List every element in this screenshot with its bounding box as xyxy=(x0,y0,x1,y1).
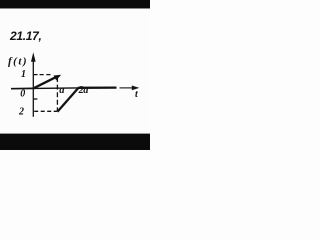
svg-text:1: 1 xyxy=(21,69,26,80)
ramp arrowhead xyxy=(54,75,62,81)
top band soft edge xyxy=(0,8,150,9)
dashed vertical at t=a xyxy=(56,77,58,112)
top black scan band xyxy=(0,0,150,8)
bottom band soft edge xyxy=(0,133,150,134)
t-axis arrowhead xyxy=(132,86,140,91)
paper background xyxy=(0,0,150,150)
bottom black scan band xyxy=(0,134,150,150)
y-axis xyxy=(32,56,34,117)
svg-text:0: 0 xyxy=(20,88,25,99)
ramp 0 to a xyxy=(34,77,57,89)
tick at level -1 xyxy=(34,98,38,100)
dashed level -2 line xyxy=(34,110,57,112)
tick at level 1 xyxy=(34,74,38,76)
svg-text:21.17,: 21.17, xyxy=(9,29,42,43)
dashed level-1 line xyxy=(40,74,53,76)
t-axis middle segment xyxy=(34,87,79,90)
svg-text:a: a xyxy=(59,85,64,96)
ramp a to 2a xyxy=(57,88,78,112)
svg-text:f(t): f(t) xyxy=(8,56,28,68)
t-axis arrow shaft xyxy=(120,87,133,89)
t-axis left segment xyxy=(11,87,34,89)
y-axis arrowhead xyxy=(31,52,36,62)
function level segment f=0 beyond 2a xyxy=(78,86,117,89)
svg-text:2: 2 xyxy=(18,107,24,118)
svg-text:2a: 2a xyxy=(78,85,89,96)
